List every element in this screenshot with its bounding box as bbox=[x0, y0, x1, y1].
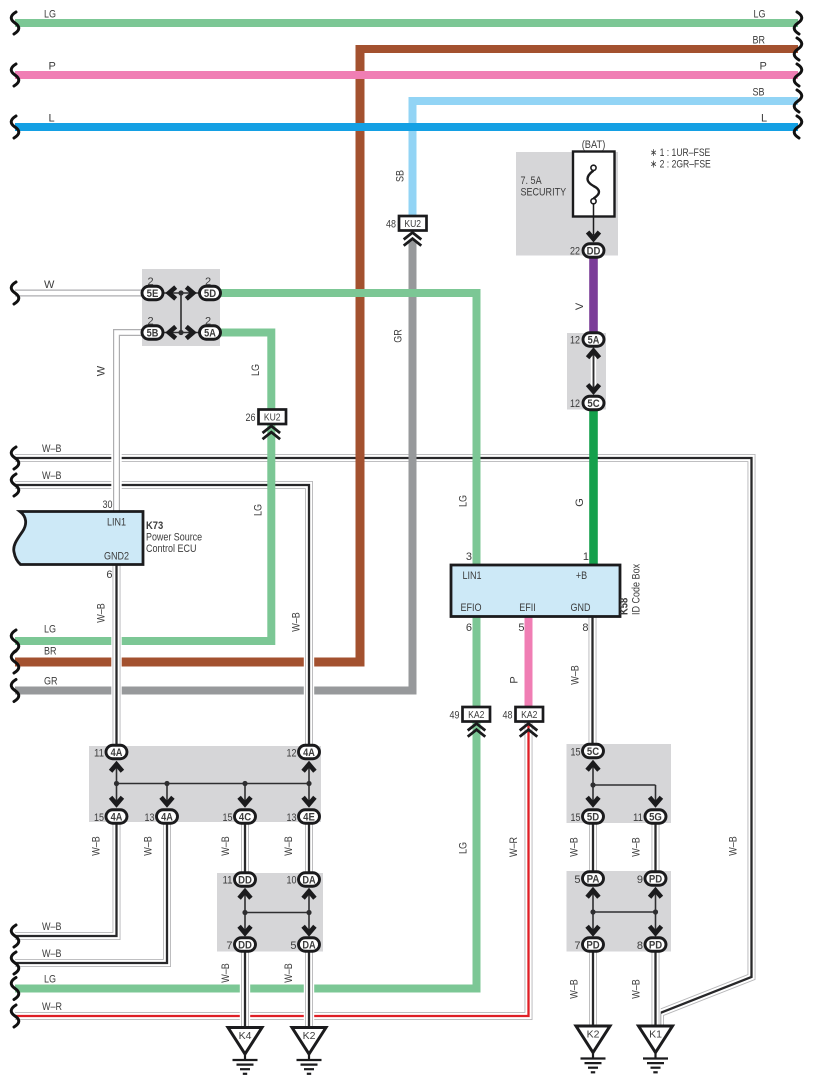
K58 pin number 1 bbox=[583, 551, 589, 563]
svg-text:7: 7 bbox=[226, 940, 232, 952]
svg-text:K4: K4 bbox=[239, 1030, 252, 1042]
svg-text:W–B: W–B bbox=[631, 837, 643, 857]
svg-text:DD: DD bbox=[238, 939, 252, 951]
svg-text:5: 5 bbox=[290, 940, 296, 952]
label W-B left d bbox=[42, 948, 62, 960]
break mark right L bbox=[794, 116, 802, 138]
label W rotated bbox=[96, 365, 108, 376]
wire W-B from DD-7 to ground K4 bbox=[240, 948, 250, 1030]
svg-text:W–B: W–B bbox=[283, 836, 295, 856]
svg-text:1: 1 bbox=[583, 551, 589, 563]
connector group box (DD/DA) bbox=[217, 873, 323, 952]
wire W-B from K73 GND2 to 4A-11 bbox=[111, 562, 121, 748]
svg-text:5B: 5B bbox=[147, 327, 159, 339]
note 2GR-FSE bbox=[650, 159, 711, 171]
svg-text:W–B: W–B bbox=[42, 921, 62, 933]
K58 pin label LIN1 bbox=[462, 570, 481, 582]
label W-R rotated bbox=[508, 837, 520, 857]
break mark right LG bbox=[794, 12, 802, 34]
svg-text:K2: K2 bbox=[303, 1030, 316, 1042]
svg-text:DD: DD bbox=[587, 245, 601, 257]
svg-text:W–R: W–R bbox=[42, 1001, 62, 1013]
svg-text:6: 6 bbox=[466, 622, 472, 634]
label LG rotated above K73 bbox=[253, 504, 265, 516]
svg-text:Control ECU: Control ECU bbox=[146, 543, 197, 555]
svg-text:5D: 5D bbox=[204, 288, 216, 300]
break mark left LG bottom bbox=[11, 978, 19, 1000]
svg-text:W–B: W–B bbox=[283, 963, 295, 983]
wire BR vertical and left horizontal bbox=[15, 45, 360, 662]
wire L top horizontal bbox=[15, 123, 798, 131]
svg-text:15: 15 bbox=[571, 747, 581, 759]
label W-B rotated 4A-15 bbox=[91, 836, 103, 856]
svg-text:LG: LG bbox=[458, 495, 470, 507]
label W-B rotated GND bbox=[570, 665, 582, 685]
svg-text:DD: DD bbox=[238, 874, 252, 886]
wire GR vertical from KU2-48 and left horizontal bbox=[15, 240, 413, 691]
wire W from 5B to K73 LIN1 bbox=[117, 333, 148, 514]
label LG rotated near 5A bbox=[250, 364, 262, 376]
ground K4 bbox=[228, 1028, 262, 1074]
connector DA pin 5 bbox=[290, 938, 319, 952]
wire SB top horizontal and vertical to KU2-48 bbox=[413, 101, 799, 218]
svg-text:W–B: W–B bbox=[42, 443, 62, 455]
connector 4C pin 15 bbox=[223, 810, 256, 824]
svg-text:8: 8 bbox=[637, 940, 643, 952]
label P rotated bbox=[509, 676, 521, 683]
break mark left GR low bbox=[11, 680, 19, 702]
ground K2 right bbox=[576, 1026, 610, 1072]
label W-B left b bbox=[42, 470, 62, 482]
label W-B rotated GND2 bbox=[96, 603, 108, 623]
label L top-right bbox=[761, 113, 767, 125]
K58 pin label GND bbox=[571, 602, 591, 614]
svg-text:15: 15 bbox=[571, 812, 581, 824]
svg-text:LG: LG bbox=[253, 504, 265, 516]
svg-text:LG: LG bbox=[44, 624, 56, 636]
break mark left W-B b bbox=[11, 474, 19, 496]
svg-text:LG: LG bbox=[44, 9, 56, 21]
junction bus 4A block bbox=[111, 762, 315, 806]
K73 pin number 6 bbox=[106, 569, 112, 581]
svg-text:9: 9 bbox=[637, 874, 643, 886]
label W-B rotated 5D bbox=[569, 837, 581, 857]
svg-text:2: 2 bbox=[205, 276, 211, 288]
svg-text:EFIO: EFIO bbox=[460, 602, 481, 614]
connector PA pin 5 bbox=[574, 872, 603, 886]
label W-B rotated 5G bbox=[631, 837, 643, 857]
label BR top-right bbox=[753, 35, 766, 47]
wire W-B from 5D-15 to PA-5 bbox=[588, 820, 598, 874]
break mark left W bbox=[11, 282, 19, 304]
K58 pin number 3 bbox=[466, 551, 472, 563]
svg-text:W–B: W–B bbox=[728, 836, 740, 856]
svg-text:GR: GR bbox=[44, 676, 58, 688]
svg-text:P: P bbox=[509, 676, 521, 683]
break mark right SB bbox=[794, 90, 802, 112]
svg-text:LG: LG bbox=[44, 974, 56, 986]
svg-text:SB: SB bbox=[753, 87, 765, 99]
svg-text:PA: PA bbox=[587, 873, 600, 885]
wire W into 5E bbox=[15, 288, 147, 298]
svg-text:LIN1: LIN1 bbox=[462, 570, 481, 582]
svg-text:Power Source: Power Source bbox=[146, 532, 202, 544]
label W left bbox=[44, 279, 55, 291]
svg-text:DA: DA bbox=[302, 939, 315, 951]
svg-text:W–B: W–B bbox=[91, 836, 103, 856]
svg-text:5E: 5E bbox=[147, 288, 159, 300]
junction link 5E-5D-5B-5A bbox=[163, 287, 199, 338]
K58 pin number 8 bbox=[582, 622, 588, 634]
svg-text:P: P bbox=[760, 61, 767, 73]
wire W-B from 4E-13 to DA-10 bbox=[304, 820, 314, 876]
break mark left W-B c bbox=[11, 925, 19, 947]
K73 pin number 30 bbox=[103, 499, 113, 511]
wire LG from EFIO via KA2-49 to left bbox=[15, 615, 477, 989]
label LG top-left bbox=[44, 9, 56, 21]
svg-text:13: 13 bbox=[287, 812, 297, 824]
svg-text:4E: 4E bbox=[303, 811, 315, 823]
svg-text:PD: PD bbox=[586, 939, 599, 951]
svg-text:5D: 5D bbox=[587, 811, 599, 823]
svg-text:11: 11 bbox=[223, 875, 233, 887]
arrow into DD bbox=[588, 232, 600, 239]
wire fuse to DD bbox=[593, 204, 595, 235]
svg-text:W–B: W–B bbox=[569, 979, 581, 999]
label LG top-right bbox=[754, 9, 766, 21]
break mark left P bbox=[11, 64, 19, 86]
break mark left W-R bbox=[11, 1005, 19, 1027]
svg-text:LG: LG bbox=[458, 842, 470, 854]
break mark left W-B a bbox=[11, 447, 19, 469]
svg-text:48: 48 bbox=[503, 710, 513, 722]
fuse label (BAT) bbox=[582, 139, 606, 151]
K73 pin label LIN1 bbox=[107, 517, 126, 529]
svg-text:K1: K1 bbox=[649, 1029, 662, 1041]
svg-text:4A: 4A bbox=[111, 811, 123, 823]
label W-B rotated PD-8 bbox=[631, 979, 643, 999]
K73 pin label GND2 bbox=[104, 551, 129, 563]
junction bus 5C-5D-5G block bbox=[587, 761, 661, 806]
label V rotated bbox=[574, 302, 586, 310]
label LG rotated above LIN1 bbox=[458, 495, 470, 507]
wire P pink EFII to KA2-48 bbox=[525, 615, 533, 709]
svg-text:K58: K58 bbox=[619, 598, 631, 615]
svg-text:SB: SB bbox=[395, 170, 407, 182]
label W-B rotated DA-5 bbox=[283, 963, 295, 983]
K58 pin label EFIO bbox=[460, 602, 481, 614]
svg-text:W–B: W–B bbox=[570, 665, 582, 685]
connector group box (5A/5C) bbox=[567, 333, 606, 410]
svg-text:13: 13 bbox=[145, 812, 155, 824]
svg-text:11: 11 bbox=[633, 812, 643, 824]
junction bus DD-DA block bbox=[239, 891, 315, 935]
svg-text:EFII: EFII bbox=[519, 602, 536, 614]
label W-B rotated DD-7 bbox=[220, 963, 232, 983]
svg-text:4A: 4A bbox=[161, 811, 173, 823]
K58 name label bbox=[619, 563, 643, 615]
svg-text:L: L bbox=[49, 113, 55, 125]
wire W-B left (y485) horizontal bbox=[15, 485, 309, 500]
wire W-B from 4C-15 to DD-11 bbox=[240, 820, 250, 876]
svg-text:GR: GR bbox=[393, 329, 405, 343]
label SB rotated bbox=[395, 170, 407, 182]
wire W-B from 5G-11 to PD-9 bbox=[650, 820, 660, 874]
svg-text:+B: +B bbox=[576, 570, 587, 582]
svg-text:GND2: GND2 bbox=[104, 551, 129, 563]
ground K2 left bbox=[292, 1028, 326, 1074]
connector 4A pin 15 bbox=[94, 810, 127, 824]
svg-text:15: 15 bbox=[94, 812, 104, 824]
wire LG top horizontal bbox=[15, 19, 798, 27]
K58 pin label +B bbox=[576, 570, 587, 582]
break mark left LG bbox=[11, 12, 19, 34]
svg-text:W–B: W–B bbox=[569, 837, 581, 857]
svg-text:G: G bbox=[574, 498, 586, 507]
svg-text:26: 26 bbox=[246, 412, 256, 424]
svg-text:∗ 1 : 1UR–FSE: ∗ 1 : 1UR–FSE bbox=[650, 147, 710, 159]
label W-B rotated PD-7 bbox=[569, 979, 581, 999]
connector group box (5E/5D/5B/5A) bbox=[142, 269, 220, 346]
label G rotated bbox=[574, 498, 586, 507]
svg-text:5C: 5C bbox=[587, 398, 599, 410]
wire V purple DD to 5A bbox=[589, 255, 598, 335]
svg-text:5A: 5A bbox=[204, 327, 216, 339]
label W-B left c bbox=[42, 921, 62, 933]
svg-text:48: 48 bbox=[386, 219, 396, 231]
svg-text:K73: K73 bbox=[146, 520, 163, 532]
label GR left mid bbox=[44, 676, 58, 688]
break mark right BR bbox=[794, 38, 802, 60]
wire W-B from 4A-15 to left bbox=[15, 820, 117, 936]
svg-text:W: W bbox=[44, 279, 55, 291]
svg-text:11: 11 bbox=[94, 748, 104, 760]
svg-text:W–B: W–B bbox=[220, 963, 232, 983]
K58 pin label EFII bbox=[519, 602, 536, 614]
ground K1 bbox=[639, 1026, 673, 1072]
label W-B rotated 4E bbox=[283, 836, 295, 856]
svg-text:W–B: W–B bbox=[96, 603, 108, 623]
fuse block background bbox=[516, 152, 618, 256]
connector 5D pin 2 bbox=[200, 276, 221, 300]
K58 pin number 6 bbox=[466, 622, 472, 634]
svg-text:SECURITY: SECURITY bbox=[521, 187, 567, 199]
label BR left mid bbox=[44, 646, 57, 658]
connector 5E pin 2 bbox=[142, 276, 163, 300]
svg-text:3: 3 bbox=[466, 551, 472, 563]
svg-text:PD: PD bbox=[649, 873, 662, 885]
wire G dark green 5C to +B bbox=[589, 408, 598, 567]
wire LG from 5A via KU2-26 to left bbox=[15, 333, 271, 642]
svg-text:4A: 4A bbox=[303, 747, 315, 759]
svg-text:ID Code Box: ID Code Box bbox=[631, 563, 643, 615]
svg-text:L: L bbox=[761, 113, 767, 125]
svg-text:7: 7 bbox=[574, 940, 580, 952]
connector 5B pin 2 bbox=[142, 316, 163, 340]
svg-text:P: P bbox=[49, 61, 56, 73]
K58 pin number 5 bbox=[518, 622, 524, 634]
svg-text:∗ 2 : 2GR–FSE: ∗ 2 : 2GR–FSE bbox=[650, 159, 711, 171]
label W-R left bbox=[42, 1001, 62, 1013]
svg-text:W: W bbox=[96, 365, 108, 376]
label W-B left a bbox=[42, 443, 62, 455]
connector 5C pin 12 bbox=[570, 396, 604, 410]
connector group box (5C/5D/5G) bbox=[567, 744, 672, 823]
svg-text:5: 5 bbox=[518, 622, 524, 634]
wire W-B from PD-8 to ground K1 bbox=[650, 948, 660, 1028]
wire between 5A and 5C bbox=[591, 350, 596, 392]
wire W-B left to right side down to K1 bbox=[15, 458, 752, 1026]
svg-text:5C: 5C bbox=[587, 746, 599, 758]
connector KA2 pin 49 bbox=[450, 707, 491, 737]
connector group box (PA/PD) bbox=[567, 871, 672, 952]
svg-text:4A: 4A bbox=[111, 747, 123, 759]
svg-text:(BAT): (BAT) bbox=[582, 139, 606, 151]
wire BR top horizontal bbox=[356, 45, 799, 53]
wire W-B vertical x309 to 4A-12 bbox=[304, 496, 314, 748]
connector KU2 pin 26 bbox=[246, 410, 287, 440]
label W-B rotated right side bbox=[728, 836, 740, 856]
svg-text:PD: PD bbox=[649, 939, 662, 951]
svg-text:12: 12 bbox=[570, 398, 580, 410]
svg-text:W–B: W–B bbox=[42, 470, 62, 482]
svg-text:4C: 4C bbox=[239, 811, 251, 823]
break mark left W-B d bbox=[11, 952, 19, 974]
label L top-left bbox=[49, 113, 55, 125]
label LG left mid bbox=[44, 624, 56, 636]
wire W-R from KA2-48 down to left bbox=[15, 722, 529, 1016]
break mark right P bbox=[794, 64, 802, 86]
break mark left BR low bbox=[11, 651, 19, 673]
svg-text:5G: 5G bbox=[649, 811, 662, 823]
svg-text:12: 12 bbox=[287, 748, 297, 760]
connector 4E pin 13 bbox=[287, 810, 320, 824]
label LG left bottom bbox=[44, 974, 56, 986]
svg-text:6: 6 bbox=[106, 569, 112, 581]
connector PD pin 8 bbox=[637, 938, 666, 952]
wire W-B from 4A-13 to left bbox=[15, 820, 167, 963]
connector KA2 pin 48 bbox=[503, 707, 544, 737]
connector 5C pin 15 bbox=[571, 744, 604, 758]
svg-text:15: 15 bbox=[223, 812, 233, 824]
connector group box (4A/4C/4E) bbox=[89, 746, 321, 822]
svg-text:W–B: W–B bbox=[143, 836, 155, 856]
svg-text:LG: LG bbox=[250, 364, 262, 376]
K73 name label bbox=[146, 520, 202, 555]
svg-text:KU2: KU2 bbox=[264, 412, 281, 424]
arrow into 5A bbox=[588, 351, 600, 358]
svg-text:2: 2 bbox=[205, 316, 211, 328]
svg-text:8: 8 bbox=[582, 622, 588, 634]
connector PD pin 9 bbox=[637, 872, 666, 886]
svg-text:DA: DA bbox=[302, 874, 315, 886]
wire W-B from PD-7 to ground K2 bbox=[588, 948, 598, 1028]
connector 5A pin 2 bbox=[200, 316, 221, 340]
note 1UR-FSE bbox=[650, 147, 710, 159]
connector PD pin 7 bbox=[574, 938, 603, 952]
svg-text:W–R: W–R bbox=[508, 837, 520, 857]
label P top-right bbox=[760, 61, 767, 73]
svg-text:22: 22 bbox=[570, 246, 580, 258]
svg-text:KA2: KA2 bbox=[521, 709, 537, 721]
svg-text:12: 12 bbox=[570, 335, 580, 347]
connector DD pin 22 bbox=[570, 244, 604, 258]
svg-text:GND: GND bbox=[571, 602, 591, 614]
ECU K73 box bbox=[14, 512, 143, 565]
svg-text:K2: K2 bbox=[587, 1029, 600, 1041]
wire LG from 5D down to K58 LIN1 bbox=[215, 293, 477, 567]
svg-text:2: 2 bbox=[147, 276, 153, 288]
wire W-B from K58 GND to 5C-15 bbox=[587, 615, 597, 748]
arrow into 5C bbox=[588, 385, 600, 392]
svg-text:KU2: KU2 bbox=[404, 218, 421, 230]
svg-text:5: 5 bbox=[574, 874, 580, 886]
label GR rotated bbox=[393, 329, 405, 343]
svg-text:LIN1: LIN1 bbox=[107, 517, 126, 529]
svg-text:2: 2 bbox=[147, 316, 153, 328]
svg-text:LG: LG bbox=[754, 9, 766, 21]
label W-B rotated x309 bbox=[291, 612, 303, 632]
svg-text:10: 10 bbox=[287, 875, 297, 887]
connector 4A pin 12 bbox=[287, 745, 320, 759]
svg-text:BR: BR bbox=[44, 646, 57, 658]
svg-text:7. 5A: 7. 5A bbox=[521, 175, 543, 187]
label SB top-right bbox=[753, 87, 765, 99]
junction bus PA-PD block bbox=[587, 890, 661, 935]
svg-text:KA2: KA2 bbox=[468, 709, 484, 721]
break mark left L bbox=[11, 116, 19, 138]
connector 5G pin 11 bbox=[633, 810, 666, 824]
connector 5D pin 15 bbox=[571, 810, 604, 824]
wire P top horizontal bbox=[15, 71, 798, 79]
connector 4A pin 11 bbox=[94, 745, 127, 759]
svg-text:W–B: W–B bbox=[42, 948, 62, 960]
fuse 7.5A SECURITY rectangle bbox=[573, 152, 615, 217]
svg-text:W–B: W–B bbox=[631, 979, 643, 999]
connector KU2 pin 48 bbox=[386, 216, 427, 246]
connector DD pin 7 bbox=[226, 938, 255, 952]
svg-text:BR: BR bbox=[753, 35, 766, 47]
connector 4A pin 13 bbox=[145, 810, 178, 824]
svg-text:30: 30 bbox=[103, 499, 113, 511]
svg-text:5A: 5A bbox=[588, 334, 600, 346]
connector DA pin 10 bbox=[287, 873, 320, 887]
connector DD pin 11 bbox=[223, 873, 256, 887]
ECU K58 box bbox=[451, 565, 620, 617]
svg-text:V: V bbox=[574, 302, 586, 310]
svg-text:W–B: W–B bbox=[291, 612, 303, 632]
fuse label 7.5A SECURITY bbox=[521, 175, 567, 199]
label LG rotated below KA2-49 bbox=[458, 842, 470, 854]
label P top-left bbox=[49, 61, 56, 73]
connector 5A pin 12 bbox=[570, 333, 604, 347]
label W-B rotated 4C bbox=[220, 836, 232, 856]
svg-text:W–B: W–B bbox=[220, 836, 232, 856]
wire W-B from DA-5 to ground K2 bbox=[304, 948, 314, 1030]
fuse element bbox=[588, 165, 600, 204]
break mark left LG low bbox=[11, 630, 19, 652]
label W-B rotated 4A-13 bbox=[143, 836, 155, 856]
svg-text:49: 49 bbox=[450, 710, 460, 722]
